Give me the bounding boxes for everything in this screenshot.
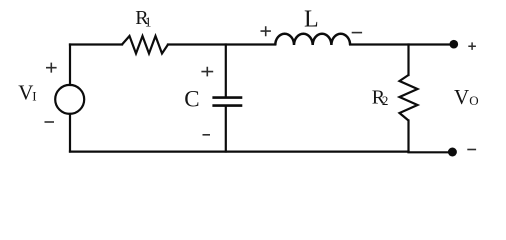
- polarity + (output): [468, 42, 476, 50]
- svg-text:1: 1: [145, 15, 152, 30]
- wire: capacitor branch bottom: [225, 107, 227, 152]
- svg-text:O: O: [469, 93, 478, 108]
- resistor R1: [122, 36, 168, 54]
- label R1: [135, 7, 151, 30]
- label R2: [372, 87, 389, 109]
- label VO: [454, 85, 479, 109]
- resistor R2: [400, 75, 418, 121]
- wire: bottom rail: [70, 151, 409, 153]
- wire: R2 branch top: [407, 45, 409, 76]
- polarity + (inductor left): [261, 26, 271, 36]
- polarity - (source): [45, 121, 55, 123]
- label L: [304, 7, 319, 33]
- polarity - (output): [467, 149, 476, 151]
- capacitor C: [212, 98, 242, 106]
- polarity + (source): [46, 63, 57, 73]
- inductor L: [275, 34, 350, 45]
- svg-text:L: L: [304, 7, 319, 33]
- wire: left branch bottom (source to bottom rail): [69, 114, 71, 152]
- wire: bottom rail, R2 junction to output terminal: [409, 151, 452, 153]
- voltage source VI: [55, 85, 84, 114]
- wire: capacitor branch top: [225, 45, 227, 97]
- wire: R2 branch bottom: [407, 121, 409, 152]
- svg-text:V: V: [454, 85, 469, 109]
- node: output + terminal dot: [450, 40, 459, 49]
- wire: top rail, source corner to R1: [70, 43, 122, 45]
- wire: top rail, R1 to inductor (through capacitor junction): [168, 43, 275, 45]
- label VI: [18, 80, 36, 104]
- svg-text:V: V: [18, 80, 33, 104]
- node: output - terminal dot: [448, 148, 457, 157]
- wire: top rail, inductor to output terminal: [350, 43, 452, 45]
- svg-text:C: C: [184, 87, 199, 112]
- svg-text:I: I: [32, 88, 36, 103]
- wire: left branch top (corner to source): [69, 45, 71, 86]
- svg-text:2: 2: [382, 93, 389, 108]
- label C: [184, 87, 199, 112]
- polarity - (capacitor): [203, 134, 211, 136]
- polarity - (inductor right): [352, 32, 362, 34]
- polarity + (capacitor): [201, 67, 213, 77]
